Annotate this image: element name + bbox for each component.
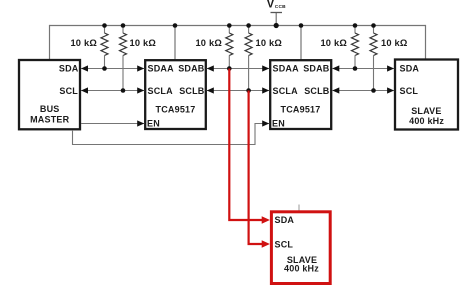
svg-text:SDA: SDA (400, 64, 420, 74)
wire rail to TCA9517 #1 top (174, 26, 176, 60)
wire rail to SLAVE 400 kHz top (425, 25, 427, 59)
junction rail R4 (246, 23, 251, 28)
junction rail R3 (227, 23, 232, 28)
junction node SDA-C / R5 (353, 66, 358, 71)
svg-text:10 kΩ: 10 kΩ (320, 38, 347, 48)
wire SCL segment C (U2 to slave) (332, 87, 394, 93)
svg-text:SCLB: SCLB (304, 86, 330, 96)
svg-text:SCLA: SCLA (148, 86, 174, 96)
wire SDAB segment B (U1 to U2) (207, 65, 269, 71)
svg-text:SCL: SCL (59, 86, 78, 96)
svg-text:BUS: BUS (40, 104, 60, 114)
svg-text:SLAVE: SLAVE (411, 106, 441, 116)
resistor R5 10k pull-up SDA bus C (352, 26, 359, 69)
wire rail to TCA9517 #2 top (300, 26, 302, 60)
svg-text:SDAA: SDAA (148, 64, 175, 74)
value label R2 10 kOhm (130, 38, 157, 48)
svg-text:TCA9517: TCA9517 (156, 105, 196, 115)
svg-text:10 kΩ: 10 kΩ (70, 38, 97, 48)
svg-text:10 kΩ: 10 kΩ (256, 38, 283, 48)
junction rail R6 (371, 23, 376, 28)
wire EN U2 (master bottom to U2 EN) (73, 120, 270, 144)
wire red SCL tap to 400 kHz slave (249, 91, 270, 248)
junction node SDA-A / R1 (102, 66, 107, 71)
value label R1 10 kOhm (70, 38, 97, 48)
power rail VCCB net (50, 25, 426, 27)
block SLAVE 400 kHz (right) (395, 60, 458, 130)
svg-text:10 kΩ: 10 kΩ (195, 38, 222, 48)
stray tick artifact above red slave box (298, 205, 300, 211)
block SLAVE 400 kHz (red highlighted) (271, 212, 330, 284)
svg-text:SDA: SDA (59, 64, 79, 74)
value label R3 10 kOhm (195, 38, 222, 48)
op-amp U1 buffer TCA9517 #1 (145, 60, 206, 129)
svg-text:SCLA: SCLA (273, 86, 299, 96)
value label R4 10 kOhm (256, 38, 283, 48)
svg-text:CCB: CCB (275, 4, 286, 10)
wire SDA segment A (master to U1) (81, 65, 144, 71)
resistor R2 10k pull-up SCL bus A (120, 26, 127, 91)
junction node SDAB / R3 (227, 66, 232, 71)
svg-text:SDAB: SDAB (303, 64, 330, 74)
svg-text:EN: EN (147, 119, 160, 129)
wire EN U1 (master to U1 EN) (81, 120, 144, 126)
junction rail U1 supply (173, 23, 178, 28)
svg-text:EN: EN (272, 119, 285, 129)
svg-text:400 kHz: 400 kHz (409, 116, 444, 126)
junction rail R5 (353, 23, 358, 28)
junction node SCLB / R4 (246, 88, 251, 93)
svg-text:V: V (267, 0, 275, 11)
svg-text:10 kΩ: 10 kΩ (381, 38, 408, 48)
wire red SDA tap to 400 kHz slave (229, 69, 270, 224)
wire SCLB segment B (U1 to U2) (207, 87, 269, 93)
svg-text:SDA: SDA (275, 215, 295, 225)
junction node SCL-C / R6 (371, 88, 376, 93)
svg-text:400 kHz: 400 kHz (284, 264, 319, 274)
svg-text:10 kΩ: 10 kΩ (130, 38, 157, 48)
svg-text:TCA9517: TCA9517 (281, 105, 321, 115)
resistor R1 10k pull-up SDA bus A (101, 26, 108, 69)
resistor R6 10k pull-up SCL bus C (370, 26, 377, 91)
svg-text:SDAB: SDAB (178, 64, 205, 74)
op-amp U2 buffer TCA9517 #2 (270, 60, 331, 129)
junction node SCL-A / R2 (121, 88, 126, 93)
wire SCL segment A (master to U1) (81, 87, 144, 93)
junction rail U2 supply (299, 23, 304, 28)
resistor R3 10k pull-up SDA bus B (226, 26, 233, 69)
block BUS MASTER (19, 60, 80, 129)
power symbol VCCB (267, 0, 287, 25)
junction rail R1 (102, 23, 107, 28)
resistor R4 10k pull-up SCL bus B (245, 26, 252, 91)
svg-text:SDAA: SDAA (273, 64, 300, 74)
svg-text:SCLB: SCLB (179, 86, 205, 96)
value label R5 10 kOhm (320, 38, 347, 48)
wire SDA segment C (U2 to slave) (332, 65, 394, 71)
svg-text:MASTER: MASTER (30, 114, 69, 124)
value label R6 10 kOhm (381, 38, 408, 48)
svg-text:SCL: SCL (400, 86, 419, 96)
junction rail R2 (121, 23, 126, 28)
wire rail to BUS MASTER top (49, 25, 51, 60)
svg-text:SCL: SCL (275, 239, 294, 249)
junction rail VCCB (274, 23, 279, 28)
